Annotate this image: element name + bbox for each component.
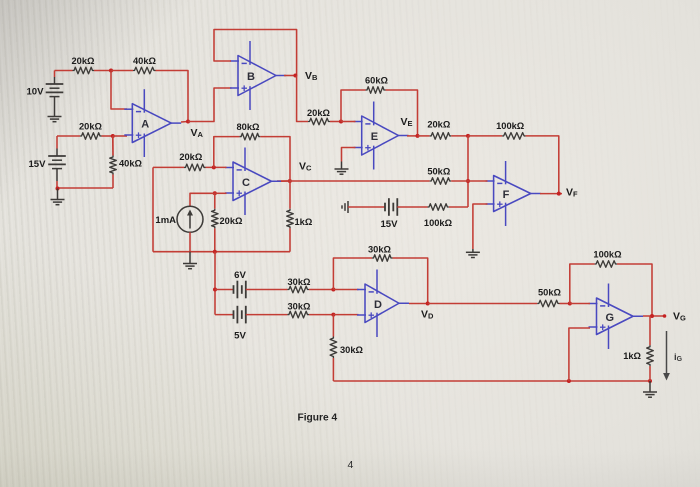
svg-text:50kΩ: 50kΩ (427, 167, 451, 177)
svg-text:F: F (503, 189, 510, 201)
svg-text:E: E (371, 131, 378, 143)
svg-text:40kΩ: 40kΩ (119, 159, 143, 169)
svg-text:20kΩ: 20kΩ (79, 122, 103, 132)
svg-text:10V: 10V (26, 87, 44, 98)
svg-text:Figure 4: Figure 4 (298, 413, 338, 424)
svg-text:VF: VF (566, 187, 578, 199)
svg-text:VB: VB (305, 70, 318, 82)
svg-text:80kΩ: 80kΩ (237, 122, 261, 132)
svg-text:B: B (247, 71, 255, 83)
svg-text:15V: 15V (380, 219, 398, 230)
svg-text:100kΩ: 100kΩ (424, 218, 453, 228)
svg-text:5V: 5V (234, 331, 246, 342)
svg-text:40kΩ: 40kΩ (133, 56, 157, 66)
svg-text:100kΩ: 100kΩ (593, 250, 622, 260)
svg-text:20kΩ: 20kΩ (220, 216, 244, 226)
svg-text:30kΩ: 30kΩ (368, 245, 392, 255)
svg-text:1kΩ: 1kΩ (623, 351, 641, 361)
svg-text:A: A (141, 119, 149, 131)
svg-text:C: C (242, 177, 250, 189)
svg-text:15V: 15V (28, 159, 46, 170)
svg-text:50kΩ: 50kΩ (538, 288, 562, 298)
svg-text:60kΩ: 60kΩ (365, 76, 389, 86)
svg-text:30kΩ: 30kΩ (288, 277, 312, 287)
svg-text:1kΩ: 1kΩ (295, 217, 313, 227)
svg-text:30kΩ: 30kΩ (288, 302, 312, 312)
svg-text:20kΩ: 20kΩ (307, 108, 331, 118)
svg-text:VG: VG (673, 311, 686, 323)
svg-text:VC: VC (299, 161, 312, 173)
svg-text:VD: VD (421, 309, 434, 321)
svg-text:VA: VA (191, 127, 204, 139)
svg-text:6V: 6V (234, 270, 246, 281)
svg-text:20kΩ: 20kΩ (72, 56, 96, 66)
svg-text:1mA: 1mA (155, 215, 176, 226)
svg-text:VE: VE (401, 116, 413, 128)
svg-text:100kΩ: 100kΩ (496, 121, 525, 131)
svg-text:G: G (606, 312, 615, 324)
svg-text:4: 4 (348, 459, 354, 471)
svg-text:30kΩ: 30kΩ (340, 345, 364, 355)
svg-text:iG: iG (674, 352, 683, 363)
svg-text:20kΩ: 20kΩ (179, 152, 203, 162)
svg-text:20kΩ: 20kΩ (427, 120, 451, 130)
svg-text:D: D (374, 299, 382, 311)
